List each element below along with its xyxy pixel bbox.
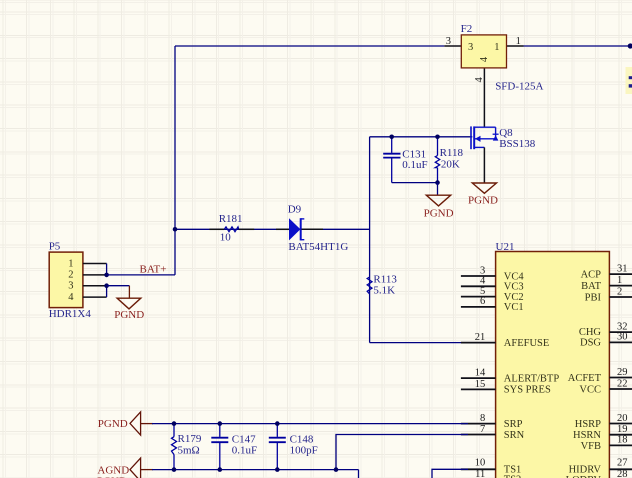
- svg-text:20: 20: [617, 413, 628, 424]
- junction C148 top: [275, 421, 280, 426]
- svg-text:HDR1X4: HDR1X4: [49, 308, 92, 320]
- svg-text:BAT54HT1G: BAT54HT1G: [288, 241, 348, 253]
- resistor R181: [209, 213, 254, 243]
- wire AGND rail: [152, 469, 359, 471]
- pin SRP (8) of U21: [461, 413, 496, 424]
- junction AGND-SRN branch: [334, 467, 339, 472]
- svg-text:D9: D9: [288, 204, 302, 216]
- ground PGND under Q8: [468, 183, 498, 207]
- pin VC3 (4) of U21: [461, 276, 496, 287]
- junction C147 top: [218, 421, 223, 426]
- resistor R179: [172, 424, 202, 470]
- svg-text:19: 19: [617, 424, 628, 435]
- svg-text:SRN: SRN: [504, 430, 525, 441]
- svg-text:15: 15: [475, 379, 486, 390]
- pin TS2 (11) of U21: [461, 469, 496, 478]
- svg-text:2: 2: [68, 270, 73, 281]
- pin VC4 (3) of U21: [461, 265, 496, 276]
- svg-text:7: 7: [480, 424, 485, 435]
- svg-text:PBI: PBI: [585, 292, 602, 303]
- wire vertical AFEFUSE through R113: [369, 137, 371, 343]
- svg-text:U21: U21: [496, 241, 515, 253]
- pin VC1 (6) of U21: [461, 296, 496, 307]
- svg-text:R181: R181: [219, 213, 243, 225]
- svg-text:R118: R118: [440, 147, 464, 159]
- capacitor C148: [269, 424, 318, 470]
- junction R118 top: [435, 135, 440, 140]
- junction at right edge: [628, 43, 632, 48]
- pin HSRP (20) of U21: [609, 413, 632, 424]
- power port PGND left: [98, 412, 153, 435]
- junction BAT+ branch: [173, 227, 178, 232]
- pin VC2 (5) of U21: [461, 286, 496, 297]
- wire R118 to PGND: [437, 183, 439, 196]
- svg-text:DSG: DSG: [580, 338, 601, 349]
- junction R179 bottom: [172, 467, 177, 472]
- svg-text:ALERT/BTP: ALERT/BTP: [504, 373, 560, 384]
- svg-text:PGND: PGND: [468, 195, 498, 207]
- svg-text:31: 31: [617, 263, 628, 274]
- svg-text:20K: 20K: [441, 158, 460, 170]
- svg-text:R179: R179: [178, 433, 202, 445]
- svg-text:18: 18: [617, 435, 628, 446]
- svg-text:4: 4: [479, 56, 490, 62]
- pin 2 of P5: [83, 274, 107, 276]
- power label cut off bottom left: [97, 475, 127, 478]
- svg-text:28: 28: [617, 469, 628, 478]
- junction C147 bottom: [218, 467, 223, 472]
- svg-text:5.1K: 5.1K: [373, 284, 395, 296]
- net label BAT+: [140, 264, 167, 276]
- svg-text:1: 1: [516, 36, 521, 47]
- wire pin1 down to pin2: [106, 264, 108, 275]
- pin PBI (2) of U21: [609, 286, 632, 297]
- pin BAT (1) of U21: [609, 275, 632, 286]
- svg-text:VC1: VC1: [504, 302, 524, 313]
- svg-text:11: 11: [475, 469, 485, 478]
- svg-text:CHG: CHG: [579, 327, 602, 338]
- transistor Q8 BSS138: [471, 126, 536, 150]
- svg-text:SYS PRES: SYS PRES: [504, 385, 551, 396]
- svg-text:1: 1: [617, 275, 622, 286]
- svg-text:TS2: TS2: [504, 475, 522, 478]
- pin ACFET (29) of U21: [609, 367, 632, 378]
- svg-text:VFB: VFB: [581, 441, 601, 452]
- svg-text:SFD-125A: SFD-125A: [495, 81, 543, 93]
- svg-text:HSRP: HSRP: [575, 419, 601, 430]
- pin HSRN (19) of U21: [609, 424, 632, 435]
- svg-text:14: 14: [475, 368, 486, 379]
- pin VCC (22) of U21: [609, 378, 632, 389]
- svg-text:6: 6: [480, 296, 485, 307]
- svg-text:10: 10: [220, 231, 232, 243]
- pin SYS PRES (15) of U21: [461, 379, 496, 390]
- svg-text:PGND: PGND: [98, 418, 128, 430]
- svg-text:ACP: ACP: [581, 269, 602, 280]
- pin number 1 of F2: [516, 36, 521, 47]
- svg-text:AFEFUSE: AFEFUSE: [504, 338, 550, 349]
- wire pin4 up to pin3: [106, 286, 108, 297]
- connector P5 HDR1X4: [49, 241, 92, 321]
- pin CHG (32) of U21: [609, 321, 632, 332]
- svg-text:1: 1: [68, 258, 73, 269]
- pin HIDRV (27) of U21: [609, 458, 632, 470]
- wire net BAT+ to branch: [107, 274, 175, 276]
- pin 3 of P5: [83, 285, 107, 287]
- svg-text:0.1uF: 0.1uF: [232, 444, 257, 456]
- pin 1 of P5: [83, 263, 107, 265]
- svg-text:10: 10: [475, 457, 486, 468]
- pin DSG (30) of U21: [609, 332, 632, 343]
- junction at pin 3: [104, 283, 109, 288]
- wire AFEFUSE horizontal to U21 pin 21: [370, 342, 468, 344]
- svg-text:2: 2: [617, 286, 622, 297]
- pin SRN (7) of U21: [461, 424, 496, 435]
- ground PGND under R118: [424, 195, 454, 219]
- pin ALERT/BTP (14) of U21: [461, 368, 496, 379]
- svg-text:29: 29: [617, 367, 628, 378]
- pin 4 of P5: [83, 296, 107, 298]
- ground PGND under P5: [114, 298, 144, 321]
- wire BAT+ horizontal through R181 and D9: [175, 228, 370, 230]
- component cut off at right edge: [626, 67, 632, 94]
- junction R179 top: [172, 421, 177, 426]
- wire P5 to PGND symbol: [107, 286, 130, 299]
- svg-text:100pF: 100pF: [290, 444, 318, 456]
- svg-text:PGND: PGND: [114, 309, 144, 321]
- pin TS1 (10) of U21: [461, 457, 496, 469]
- svg-text:0.1uF: 0.1uF: [402, 159, 427, 171]
- wire AGND down off-sheet: [358, 470, 360, 478]
- svg-text:ACFET: ACFET: [568, 373, 602, 384]
- svg-text:VCC: VCC: [579, 384, 601, 395]
- resistor R118: [435, 137, 463, 183]
- pin ACP (31) of U21: [609, 263, 632, 274]
- junction C131 top: [389, 135, 394, 140]
- wire from F2 pin 1 to right edge: [507, 45, 632, 47]
- svg-text:BAT: BAT: [581, 281, 601, 292]
- svg-text:22: 22: [617, 378, 628, 389]
- wire F2 pin 4 down to Q8 drain: [483, 68, 485, 127]
- wire BAT+ vertical F2-to-P5 branch: [174, 46, 176, 275]
- wire PGND rail to SRP: [152, 423, 468, 425]
- svg-text:21: 21: [475, 332, 486, 343]
- capacitor C147: [211, 424, 257, 470]
- svg-text:3: 3: [446, 36, 451, 47]
- svg-text:4: 4: [474, 77, 485, 83]
- svg-text:30: 30: [617, 332, 628, 343]
- capacitor C131: [383, 137, 427, 183]
- svg-text:5mΩ: 5mΩ: [178, 444, 200, 456]
- diode D9 BAT54HT1G: [276, 204, 348, 253]
- IC U21: [496, 241, 610, 478]
- svg-text:27: 27: [617, 458, 628, 469]
- power port AGND left: [97, 458, 153, 478]
- wire TS1 from bottom: [432, 469, 468, 478]
- svg-text:P5: P5: [49, 241, 61, 253]
- svg-text:BAT+: BAT+: [140, 264, 167, 276]
- svg-text:4: 4: [68, 292, 74, 303]
- wire top horizontal to F2 pin 3: [175, 45, 461, 47]
- svg-text:Q8: Q8: [499, 127, 513, 139]
- value label SFD-125A: [495, 81, 543, 93]
- pin VFB (18) of U21: [609, 435, 632, 446]
- svg-text:8: 8: [480, 413, 485, 424]
- junction at pin 2: [104, 273, 109, 278]
- svg-text:BSS138: BSS138: [499, 138, 536, 150]
- svg-text:HSRN: HSRN: [573, 430, 601, 441]
- svg-text:SRP: SRP: [504, 419, 523, 430]
- junction R118 bottom: [435, 180, 440, 185]
- resistor R113: [367, 273, 397, 296]
- svg-text:1: 1: [494, 42, 499, 53]
- wire AGND branch to SRN: [336, 435, 468, 470]
- wire Q8 source to PGND: [483, 147, 485, 183]
- wire bottom rail C131-R118: [392, 182, 438, 184]
- pin number 4 of F2: [474, 77, 485, 83]
- pin number 3 of F2: [446, 36, 451, 47]
- svg-text:3: 3: [468, 42, 473, 53]
- svg-text:PGND: PGND: [424, 208, 454, 220]
- pin LODRV (28) of U21: [609, 469, 632, 478]
- svg-text:F2: F2: [461, 23, 473, 35]
- fuse F2: [461, 23, 507, 68]
- pin AFEFUSE (21) of U21: [461, 332, 496, 343]
- junction C148 bottom: [275, 467, 280, 472]
- wire Q8 gate rail: [370, 136, 473, 138]
- svg-text:3: 3: [68, 281, 73, 292]
